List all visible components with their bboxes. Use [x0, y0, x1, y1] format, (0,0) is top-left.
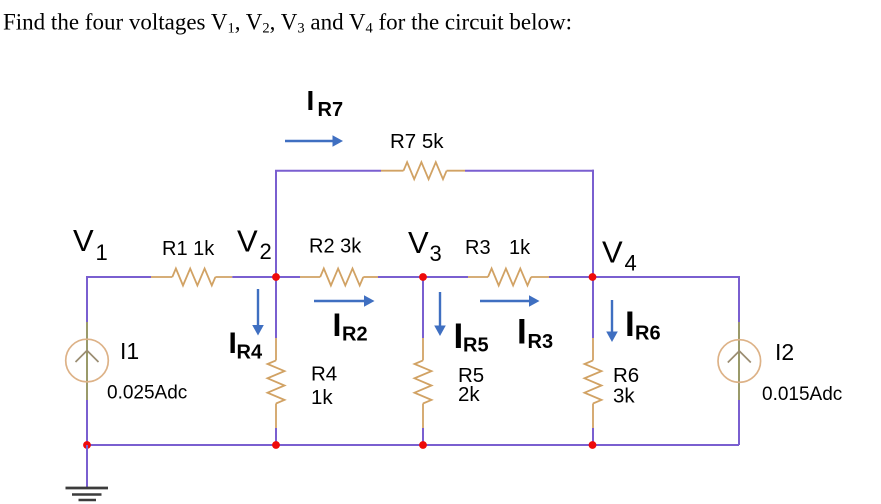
label I1 value: [107, 383, 187, 404]
wire: main rail R3 to V4 and right corner: [549, 276, 740, 278]
wire: main rail R1 to V2 node: [232, 276, 300, 278]
label R4 name: [311, 363, 337, 386]
svg-text:R6: R6: [613, 364, 639, 387]
current arrow IR6: [606, 300, 618, 342]
label R3 name: [465, 237, 491, 259]
wire: top loop right vertical (down to V4): [592, 170, 594, 277]
svg-text:R2: R2: [342, 324, 368, 346]
label IR7 current: [307, 85, 344, 121]
svg-text:1k: 1k: [311, 386, 333, 409]
current source I1: [66, 322, 109, 400]
label IR5 current: [454, 317, 489, 357]
svg-text:0.025Adc: 0.025Adc: [107, 383, 187, 404]
svg-text:0.015Adc: 0.015Adc: [762, 384, 842, 405]
resistor R2: [300, 269, 378, 286]
ground: [66, 445, 109, 500]
current arrow IR2: [314, 295, 375, 307]
svg-text:Find the four voltages V1, V2,: Find the four voltages V1, V2, V3 and V4…: [3, 10, 572, 37]
label R4 value: [311, 386, 333, 409]
wire: main rail R2 to V3 node: [378, 276, 468, 278]
label IR4 current: [229, 327, 263, 364]
svg-text:R6: R6: [635, 323, 661, 345]
svg-text:R7 5k: R7 5k: [390, 130, 444, 153]
svg-text:V: V: [73, 223, 94, 258]
svg-text:1: 1: [96, 240, 108, 265]
label R2 value: [309, 236, 362, 258]
label node V3: [408, 225, 442, 266]
node V4 junction dot: [589, 273, 597, 281]
svg-text:R2 3k: R2 3k: [309, 236, 362, 258]
svg-text:I: I: [625, 305, 635, 344]
resistor R6: [585, 338, 602, 428]
svg-text:V: V: [602, 235, 623, 270]
wire: left branch vertical lower: [86, 400, 88, 445]
svg-text:R1 1k: R1 1k: [162, 238, 215, 260]
resistor R1: [151, 269, 232, 286]
svg-text:I: I: [454, 317, 464, 356]
svg-text:I2: I2: [775, 339, 794, 365]
svg-text:V: V: [408, 225, 429, 260]
label I2 name: [775, 339, 794, 365]
wire: R4 branch upper: [275, 277, 277, 338]
title text: [3, 10, 572, 37]
current arrow IR4: [252, 289, 264, 336]
svg-text:R5: R5: [463, 335, 489, 357]
svg-text:I: I: [517, 313, 527, 352]
svg-text:I: I: [307, 85, 315, 116]
resistor R5: [415, 338, 432, 428]
svg-text:I: I: [333, 307, 342, 343]
svg-text:1k: 1k: [509, 237, 531, 259]
current arrow IR3: [480, 295, 540, 307]
label R6 name: [613, 364, 639, 387]
junction dot bottom left (ground node): [83, 441, 91, 449]
wire: right branch vertical upper (I2): [738, 276, 740, 322]
label R6 value: [613, 384, 635, 407]
wire: bottom rail: [87, 444, 739, 446]
resistor R7: [381, 162, 465, 179]
wire: R6 branch upper: [592, 277, 594, 338]
label I2 value: [762, 384, 842, 405]
label R5 name: [458, 364, 484, 387]
wire: main rail V1 corner to R1: [87, 276, 151, 278]
svg-text:3: 3: [430, 241, 442, 266]
svg-text:V: V: [237, 223, 258, 258]
svg-text:2k: 2k: [458, 383, 480, 406]
label I1 name: [120, 338, 139, 364]
resistor R4: [268, 338, 285, 428]
label R1 value: [162, 238, 215, 260]
label IR2 current: [333, 307, 368, 346]
label node V4: [602, 235, 637, 276]
svg-text:I1: I1: [120, 338, 139, 364]
svg-text:3k: 3k: [613, 384, 635, 407]
wire: R7 rail right segment: [465, 170, 594, 172]
svg-text:R4: R4: [237, 342, 263, 364]
junction dot bottom R4: [272, 441, 280, 449]
current arrow IR7: [285, 135, 343, 147]
svg-text:R3: R3: [465, 237, 491, 259]
wire: R6 branch lower: [592, 428, 594, 445]
wire: left branch vertical upper (V1): [86, 276, 88, 322]
svg-text:2: 2: [260, 239, 272, 264]
junction dot bottom R5: [419, 441, 427, 449]
label node V2: [237, 223, 272, 264]
svg-text:4: 4: [625, 250, 637, 275]
label R5 value: [458, 383, 480, 406]
current source I2: [718, 322, 761, 400]
label R3 value: [509, 237, 531, 259]
junction dot bottom R6: [589, 441, 597, 449]
wire: right branch vertical lower: [738, 400, 740, 445]
wire: R5 branch upper: [422, 277, 424, 338]
wire: top loop left vertical (V2 up to R7 rail): [275, 171, 277, 277]
wire: R5 branch lower: [422, 428, 424, 445]
resistor R3: [468, 269, 549, 286]
wire: R7 rail left segment: [275, 170, 381, 172]
svg-text:R4: R4: [311, 363, 337, 386]
label IR3 current: [517, 313, 553, 354]
svg-text:R3: R3: [528, 331, 554, 353]
label IR6 current: [625, 305, 661, 345]
svg-text:R7: R7: [318, 99, 344, 121]
label R7 value: [390, 130, 444, 153]
label node V1: [73, 223, 108, 265]
current arrow IR5: [434, 292, 446, 336]
node V2 junction dot: [272, 273, 280, 281]
wire: R4 branch lower: [275, 428, 277, 445]
node V3 junction dot: [419, 273, 427, 281]
